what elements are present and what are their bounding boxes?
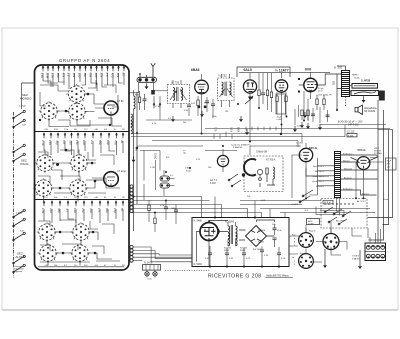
right bus v4: [368, 130, 393, 218]
svg-text:N. 5481: N. 5481: [194, 263, 203, 266]
ground extra b: [318, 124, 322, 130]
speaker magnet block: [379, 91, 385, 101]
svg-text:920: 920: [332, 81, 335, 86]
long vertical left bus a: [133, 113, 135, 231]
junction dots band: [133, 103, 365, 219]
mid band wire h2: [320, 124, 386, 126]
resistor R11: [135, 91, 141, 110]
section divider OSCIL/ALTA F: [35, 199, 130, 201]
vibrator transformer: [228, 222, 237, 246]
svg-text:PCB M: PCB M: [324, 202, 331, 204]
dual cap block: [160, 170, 175, 196]
svg-text:94.47: 94.47: [186, 171, 192, 173]
power transformer winding: [335, 152, 341, 198]
antenna terminal strip: [137, 73, 157, 94]
staircase wires s3: [38, 220, 120, 262]
drop 6BA6: [201, 99, 203, 134]
svg-text:6AL5: 6AL5: [244, 68, 252, 72]
resistor det R33: [270, 73, 272, 112]
elbow wires sockets: [306, 207, 368, 263]
svg-text:220: 220: [94, 73, 98, 78]
trimmer row section 3: [43, 201, 125, 207]
svg-text:22M: 22M: [46, 73, 50, 79]
svg-text:Reg 4v: Reg 4v: [309, 231, 317, 233]
svg-text:56: 56: [120, 208, 124, 212]
svg-text:7μF: 7μF: [22, 125, 26, 127]
mid band wire h3: [205, 128, 390, 130]
tube 12AT7: [275, 73, 287, 99]
svg-text:R 58: R 58: [135, 95, 140, 97]
switch wafer S1a: [66, 84, 86, 104]
section divider MONDO/OSCIL: [35, 131, 130, 133]
switch wafer S2d: [68, 178, 88, 198]
svg-text:S. 6F28: S. 6F28: [361, 79, 371, 83]
wire box to selector: [289, 236, 303, 254]
staircase wires s1: [40, 80, 122, 126]
box internal label row above divider1: [44, 129, 125, 131]
trimmer row section 2: [43, 133, 125, 139]
blob cap under 6BA6 a: [198, 106, 201, 109]
svg-text:NERO: NERO: [352, 75, 359, 77]
svg-text:Blu 140 V: Blu 140 V: [315, 171, 325, 173]
value labels row 1 (vertical): [40, 73, 126, 79]
IF transformer N732: [218, 74, 235, 108]
wire 6X5 drop: [292, 155, 306, 198]
cap row C35: [277, 247, 286, 267]
feedthrough terminals column2: [130, 185, 133, 213]
switch arm A2: [13, 119, 26, 128]
right mini component box: [386, 158, 397, 170]
svg-text:2.2: 2.2: [90, 140, 94, 144]
inner bottom line of box: [38, 266, 124, 268]
speaker field coil bar1: [352, 84, 378, 89]
svg-text:RICEVITORE G 208: RICEVITORE G 208: [208, 274, 262, 280]
switch arm D3: [13, 264, 26, 273]
mid band wire h4: [131, 133, 302, 135]
svg-text:+4B: +4B: [94, 197, 98, 199]
svg-text:2.2: 2.2: [67, 73, 71, 77]
tube V2 mixer: [104, 170, 127, 186]
svg-text:A 6 GHT: A 6 GHT: [253, 248, 262, 251]
svg-text:56k: 56k: [98, 140, 102, 145]
svg-text:1M: 1M: [83, 73, 87, 78]
junction dots box sections: [39, 93, 111, 255]
svg-text:47k: 47k: [62, 73, 66, 78]
junction dot loop: [242, 173, 245, 176]
switch arm B1: [13, 144, 26, 153]
svg-text:N.556: N.556: [258, 242, 265, 244]
wires transformer bottom drops: [337, 198, 340, 216]
wire connector feeds: [370, 229, 381, 243]
svg-text:82k: 82k: [105, 208, 109, 213]
svg-text:120: 120: [73, 208, 77, 213]
svg-text:500k: 500k: [237, 127, 240, 133]
switch wafer S2b: [69, 153, 89, 173]
svg-text:+3B: +3B: [94, 129, 98, 131]
svg-text:0.1B: 0.1B: [230, 127, 233, 132]
nested elbow wires: [133, 247, 192, 262]
trimmer T10: [153, 96, 161, 108]
socket V12: [299, 254, 314, 269]
switch wafer S3d: [70, 243, 90, 263]
verticals to power box: [215, 197, 285, 218]
right bus v3: [383, 130, 389, 225]
resistor under 6V6 b: [306, 110, 310, 129]
trimmer mid left: [159, 96, 162, 120]
svg-text:al 6AT6: al 6AT6: [291, 203, 299, 206]
socket V11: [323, 234, 339, 250]
svg-text:15k: 15k: [75, 140, 79, 145]
svg-text:5.6: 5.6: [105, 73, 109, 77]
secondary labels: [343, 153, 369, 195]
junction dots on box bottom: [209, 265, 280, 267]
scatter labels a: [150, 111, 309, 212]
wires inside box top: [197, 220, 275, 267]
wire strip circle3 to can: [154, 90, 168, 92]
svg-text:100: 100: [56, 73, 60, 78]
svg-text:6.8: 6.8: [62, 140, 66, 144]
svg-text:470: 470: [114, 140, 118, 145]
svg-text:C7 amp: C7 amp: [117, 170, 126, 173]
svg-text:47Ω: 47Ω: [54, 129, 58, 131]
svg-text:150: 150: [48, 140, 52, 145]
svg-text:82: 82: [122, 73, 126, 77]
slug arrows T732: [220, 89, 233, 98]
svg-text:6 BA6 Rit: 6 BA6 Rit: [233, 146, 243, 149]
svg-text:AT 700 A: AT 700 A: [266, 159, 276, 162]
svg-text:6.3DL: 6.3DL: [348, 135, 355, 137]
svg-text:0.47μF: 0.47μF: [19, 106, 27, 108]
mid band wire h7: [137, 145, 300, 147]
selector switch arms left: [299, 190, 313, 203]
svg-text:6V6: 6V6: [305, 68, 311, 72]
resistor af R34: [276, 92, 278, 114]
selector switch arms: [324, 207, 351, 225]
trimmer row section 1: [42, 66, 126, 72]
svg-text:15 kΩ: 15 kΩ: [154, 153, 157, 160]
dashed wire to speaker label: [345, 97, 347, 107]
resistor midlow R42: [154, 212, 156, 232]
svg-text:½ 12AT7: ½ 12AT7: [275, 69, 289, 73]
right bus v1: [377, 100, 379, 243]
svg-text:27k: 27k: [81, 208, 85, 213]
svg-text:Verde 110 V: Verde 110 V: [312, 180, 324, 183]
switch arm C2: [13, 218, 26, 227]
resistor af R35: [285, 92, 287, 116]
switch wafer S3a: [37, 222, 57, 242]
tube 6V6: [298, 72, 317, 99]
svg-text:330: 330: [89, 208, 93, 213]
cap small right of 6V6: [311, 114, 330, 117]
long vertical left bus b: [136, 92, 138, 204]
resistor midlow R41: [148, 200, 150, 222]
svg-text:Nero 220 V: Nero 220 V: [313, 165, 325, 168]
svg-text:AI COMPI: AI COMPI: [336, 220, 346, 223]
small speaker icon: [355, 105, 363, 114]
internal wires section2: [44, 141, 124, 202]
bridge rectifier: [246, 226, 267, 247]
switch wafer S2c: [33, 178, 53, 198]
subtitle valida: [266, 275, 294, 278]
tube 6BA6: [195, 74, 209, 99]
switch wafer S3b: [71, 222, 91, 242]
switch arm A1: [13, 110, 26, 119]
left feed vertical: [22, 83, 35, 109]
svg-text:1 M: 1 M: [183, 150, 186, 154]
lower band wire h2: [134, 200, 322, 202]
socket pin labels: [292, 235, 296, 267]
switch arm C1: [13, 209, 26, 218]
phono unit dashed box: [244, 156, 283, 192]
svg-text:47p: 47p: [55, 140, 59, 145]
svg-text:68k: 68k: [89, 73, 93, 78]
svg-text:30μF: 30μF: [387, 161, 392, 163]
ground left bus: [132, 157, 136, 163]
lower band wire h1: [132, 197, 202, 218]
phono unit internals: [257, 167, 275, 187]
value labels row 2 (vertical): [41, 140, 124, 146]
cap block small: [347, 134, 357, 138]
svg-text:220: 220: [49, 208, 53, 213]
resistor R21: [316, 95, 318, 110]
svg-text:1 OFF: 1 OFF: [308, 223, 314, 225]
svg-text:3.3k: 3.3k: [51, 73, 55, 79]
svg-text:10p: 10p: [106, 140, 110, 145]
cap row C31: [205, 246, 212, 267]
svg-text:G.TA G: G.TA G: [352, 255, 359, 258]
cap under T732: [211, 99, 215, 118]
antenna lead-in: [151, 63, 155, 77]
vibrator unit: [200, 220, 219, 240]
mid band wire h5: [131, 136, 345, 138]
cap C11: [143, 94, 147, 110]
svg-text:GRUPPO AF N 2604: GRUPPO AF N 2604: [59, 58, 110, 63]
switch wafer S3c: [38, 243, 58, 263]
svg-text:S.Med 6M: S.Med 6M: [256, 151, 267, 154]
svg-text:5V4-G: 5V4-G: [358, 148, 366, 152]
svg-text:2.2M: 2.2M: [150, 167, 155, 169]
ground under strip: [145, 83, 149, 89]
box internal label row near bottom: [44, 265, 125, 267]
ground 6V6 cathode: [303, 112, 307, 118]
svg-text:150: 150: [78, 73, 82, 78]
svg-text:Rosso 0: Rosso 0: [316, 186, 325, 188]
svg-text:Marrone: Marrone: [344, 167, 353, 170]
ground socket2: [358, 263, 362, 269]
switch arm B2: [13, 153, 26, 162]
resistor under 6BA6: [197, 96, 199, 116]
drop to lamps: [147, 270, 155, 277]
mid band wire h1: [146, 119, 192, 121]
drop 12AT7: [281, 99, 283, 134]
lower band wire h3: [132, 205, 303, 218]
switch wafer S2a: [35, 153, 55, 173]
shielded unit box GRUPPO AF: [35, 65, 130, 270]
transformer secondary leads: [341, 155, 378, 195]
loop antenna arc: [244, 159, 256, 175]
right bus top tie: [378, 129, 393, 131]
mid band vertical jogs: [298, 125, 345, 147]
choke L1: [134, 90, 136, 113]
svg-text:B. Bianco: B. Bianco: [343, 153, 353, 155]
internal wires section3: [44, 209, 123, 266]
cap midlow C41: [160, 201, 168, 221]
svg-text:12 OL: 12 OL: [296, 143, 303, 145]
tube 6X5: [299, 143, 312, 168]
right bus v2: [369, 110, 384, 240]
coupling coil on box edge top: [131, 114, 133, 134]
volume pot arrow: [245, 96, 253, 104]
svg-text:Bianco: Bianco: [362, 193, 369, 195]
svg-text:33k: 33k: [100, 73, 104, 78]
band tick marks: [214, 127, 276, 140]
wire 5V4 leads: [351, 155, 378, 177]
svg-text:7.7k: 7.7k: [214, 127, 217, 132]
svg-text:N. 733: N. 733: [171, 81, 180, 85]
switch arm magic eye: [228, 174, 241, 187]
drop 6AL5: [249, 101, 251, 155]
internal wires section1: [43, 73, 124, 127]
svg-text:6BA6: 6BA6: [191, 68, 200, 72]
connector strip N5478: [143, 262, 161, 271]
mid band wire h8: [140, 150, 237, 152]
svg-text:N. 732: N. 732: [219, 74, 228, 78]
speaker field coil bar2: [351, 91, 379, 96]
cap det C30: [261, 73, 265, 104]
primary tap leads: [310, 158, 335, 195]
svg-text:Verde: Verde: [383, 198, 389, 201]
cap row C32: [225, 248, 234, 267]
left control shaft dash-dot: [13, 112, 15, 278]
resistor det R32: [266, 73, 268, 110]
wire sockets feed: [306, 228, 341, 255]
svg-text:Cand. Da 6 BA6 Pin: Cand. Da 6 BA6 Pin: [231, 144, 251, 147]
svg-text:12k: 12k: [116, 73, 120, 78]
power supply box: [192, 218, 289, 267]
wire speaker left: [337, 86, 352, 92]
svg-text:Bianco: Bianco: [343, 160, 350, 162]
feedthrough terminals column: [130, 245, 133, 262]
B+ top bus: [239, 72, 330, 74]
tube V1 oscillator: [104, 100, 124, 115]
svg-text:1.8k: 1.8k: [41, 208, 45, 214]
pilot lamps: [145, 272, 157, 276]
svg-text:360Ω: 360Ω: [240, 250, 246, 252]
IF transformer N733: [168, 80, 190, 108]
ground mid band b: [245, 129, 249, 135]
drop 6V6: [304, 91, 308, 120]
svg-text:B. Bianco: B. Bianco: [343, 188, 353, 190]
output transformer T-out: [337, 66, 350, 97]
svg-text:CA 7 3: CA 7 3: [210, 179, 218, 182]
svg-text:OSCIL: OSCIL: [20, 162, 29, 166]
selector dotted row: [324, 203, 353, 204]
blob cap under 6BA6 b: [204, 106, 207, 109]
ground extra a: [293, 126, 297, 132]
ground socket1: [323, 262, 327, 268]
svg-text:14F 9.650: 14F 9.650: [348, 124, 359, 127]
cap under 6BA6: [205, 97, 209, 112]
detector shield bracket: [237, 67, 290, 77]
svg-text:17C: 17C: [84, 129, 88, 131]
svg-text:NP 103/32: NP 103/32: [364, 110, 376, 113]
wires 5V4 right: [370, 158, 384, 163]
svg-text:2.7k: 2.7k: [41, 140, 45, 146]
extra vert comps right of 6V6: [295, 105, 328, 125]
svg-text:4.7k: 4.7k: [40, 73, 44, 79]
cap row C33: [242, 248, 251, 267]
svg-text:Arancio: Arancio: [344, 176, 352, 179]
svg-text:12.125: 12.125: [347, 131, 355, 134]
wire 6X5 to transformer: [306, 168, 329, 176]
note box help: [374, 148, 382, 155]
slug arrows T733: [170, 90, 187, 100]
PCB-M mini box: [323, 200, 333, 204]
socket V10: [299, 233, 314, 248]
resistor cluster det R31: [258, 73, 260, 108]
cap midlow C42: [171, 205, 178, 225]
switch arm D1: [13, 232, 26, 241]
svg-text:15p: 15p: [113, 208, 117, 213]
box internal label row above divider2: [44, 197, 125, 199]
switch arm D2: [13, 255, 26, 264]
lower band wire h4: [134, 209, 371, 218]
wire 5V4 down: [356, 162, 364, 198]
svg-text:+1B: +1B: [44, 129, 48, 131]
cap 0.05 under T733: [184, 105, 191, 116]
switch wafer S1c: [67, 102, 87, 122]
page bottom shadow: [2, 309, 398, 311]
svg-text:N.5506: N.5506: [258, 230, 266, 232]
mains selector dashed box: [321, 199, 367, 229]
svg-text:Valida BR.781 Milano: Valida BR.781 Milano: [266, 275, 289, 278]
cap row C34: [260, 247, 269, 267]
tube 5V4G: [357, 157, 370, 170]
ground speaker: [362, 97, 366, 103]
resistor R22: [323, 95, 325, 110]
primary tap labels: [312, 165, 325, 188]
svg-text:4.7: 4.7: [65, 208, 69, 212]
ground under 6BA6: [200, 111, 204, 117]
filter cap 25+25: [272, 224, 282, 247]
dotted wire to power box: [165, 270, 210, 272]
switch wafer S1b: [39, 101, 59, 121]
wire 6V6 plate to transformer: [317, 74, 341, 110]
svg-text:68p: 68p: [57, 208, 61, 213]
vertical drops mid-left: [144, 151, 160, 201]
value labels row 3 (vertical): [41, 208, 124, 214]
svg-text:1M: 1M: [225, 111, 228, 113]
svg-text:Giallo: Giallo: [354, 78, 360, 80]
ground mid band c: [171, 116, 175, 122]
ground mid band a: [239, 116, 243, 122]
svg-text:N.10500: N.10500: [225, 221, 235, 224]
svg-text:N. 5480: N. 5480: [194, 220, 203, 223]
wire strip to box: [130, 83, 154, 93]
svg-text:6 CM: 6 CM: [210, 183, 216, 185]
AUX switch box: [307, 219, 320, 226]
staircase wires s2: [38, 150, 120, 193]
svg-text:330: 330: [69, 140, 73, 145]
svg-text:10k: 10k: [72, 73, 76, 78]
cathode box 12AT7: [276, 94, 288, 121]
svg-text:25 V: 25 V: [318, 91, 323, 93]
svg-text:470: 470: [111, 73, 115, 78]
mid band wire h6: [152, 140, 298, 142]
svg-text:STAGG: STAGG: [352, 257, 360, 260]
tube 6AL5: [243, 73, 256, 101]
tube V9 small: [217, 149, 228, 172]
